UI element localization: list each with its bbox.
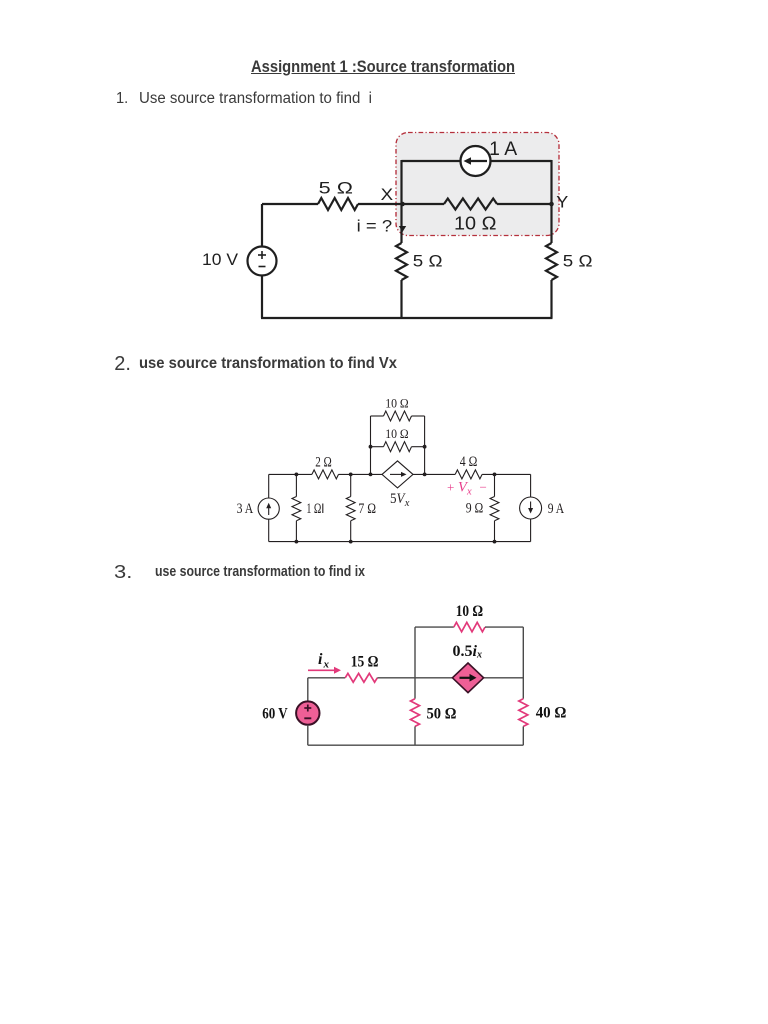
svg-text:40 Ω: 40 Ω bbox=[536, 705, 567, 722]
svg-text:X: X bbox=[381, 186, 394, 204]
svg-text:x: x bbox=[404, 498, 410, 509]
svg-text:Y: Y bbox=[556, 193, 568, 212]
svg-text:5 Ω: 5 Ω bbox=[563, 252, 593, 271]
svg-text:5 Ω: 5 Ω bbox=[413, 252, 443, 271]
svg-text:x: x bbox=[476, 650, 482, 661]
svg-text:−: − bbox=[480, 480, 487, 495]
svg-text:0.5i: 0.5i bbox=[453, 643, 478, 660]
svg-text:2 Ω: 2 Ω bbox=[315, 455, 332, 471]
svg-text:+: + bbox=[447, 480, 454, 495]
svg-text:10 Ω: 10 Ω bbox=[385, 396, 409, 410]
svg-text:10 Ω: 10 Ω bbox=[456, 603, 484, 620]
svg-text:7 Ω: 7 Ω bbox=[358, 501, 376, 517]
svg-text:10 Ω: 10 Ω bbox=[454, 213, 497, 234]
svg-text:1 Ω: 1 Ω bbox=[306, 501, 321, 517]
svg-text:3 A: 3 A bbox=[237, 501, 254, 517]
svg-text:1 A: 1 A bbox=[489, 139, 517, 160]
svg-text:i: i bbox=[318, 651, 323, 668]
svg-text:15 Ω: 15 Ω bbox=[351, 654, 379, 671]
svg-text:9 A: 9 A bbox=[548, 501, 565, 517]
svg-text:5 Ω: 5 Ω bbox=[319, 178, 353, 197]
svg-text:10 Ω: 10 Ω bbox=[385, 427, 409, 441]
svg-text:10 V: 10 V bbox=[202, 251, 238, 269]
svg-text:4 Ω: 4 Ω bbox=[460, 454, 478, 470]
svg-text:9 Ω: 9 Ω bbox=[466, 501, 484, 517]
svg-text:i = ?: i = ? bbox=[357, 218, 392, 236]
svg-text:60 V: 60 V bbox=[262, 706, 288, 723]
svg-text:x: x bbox=[323, 659, 330, 671]
svg-text:50 Ω: 50 Ω bbox=[427, 706, 457, 723]
svg-text:x: x bbox=[466, 487, 472, 498]
